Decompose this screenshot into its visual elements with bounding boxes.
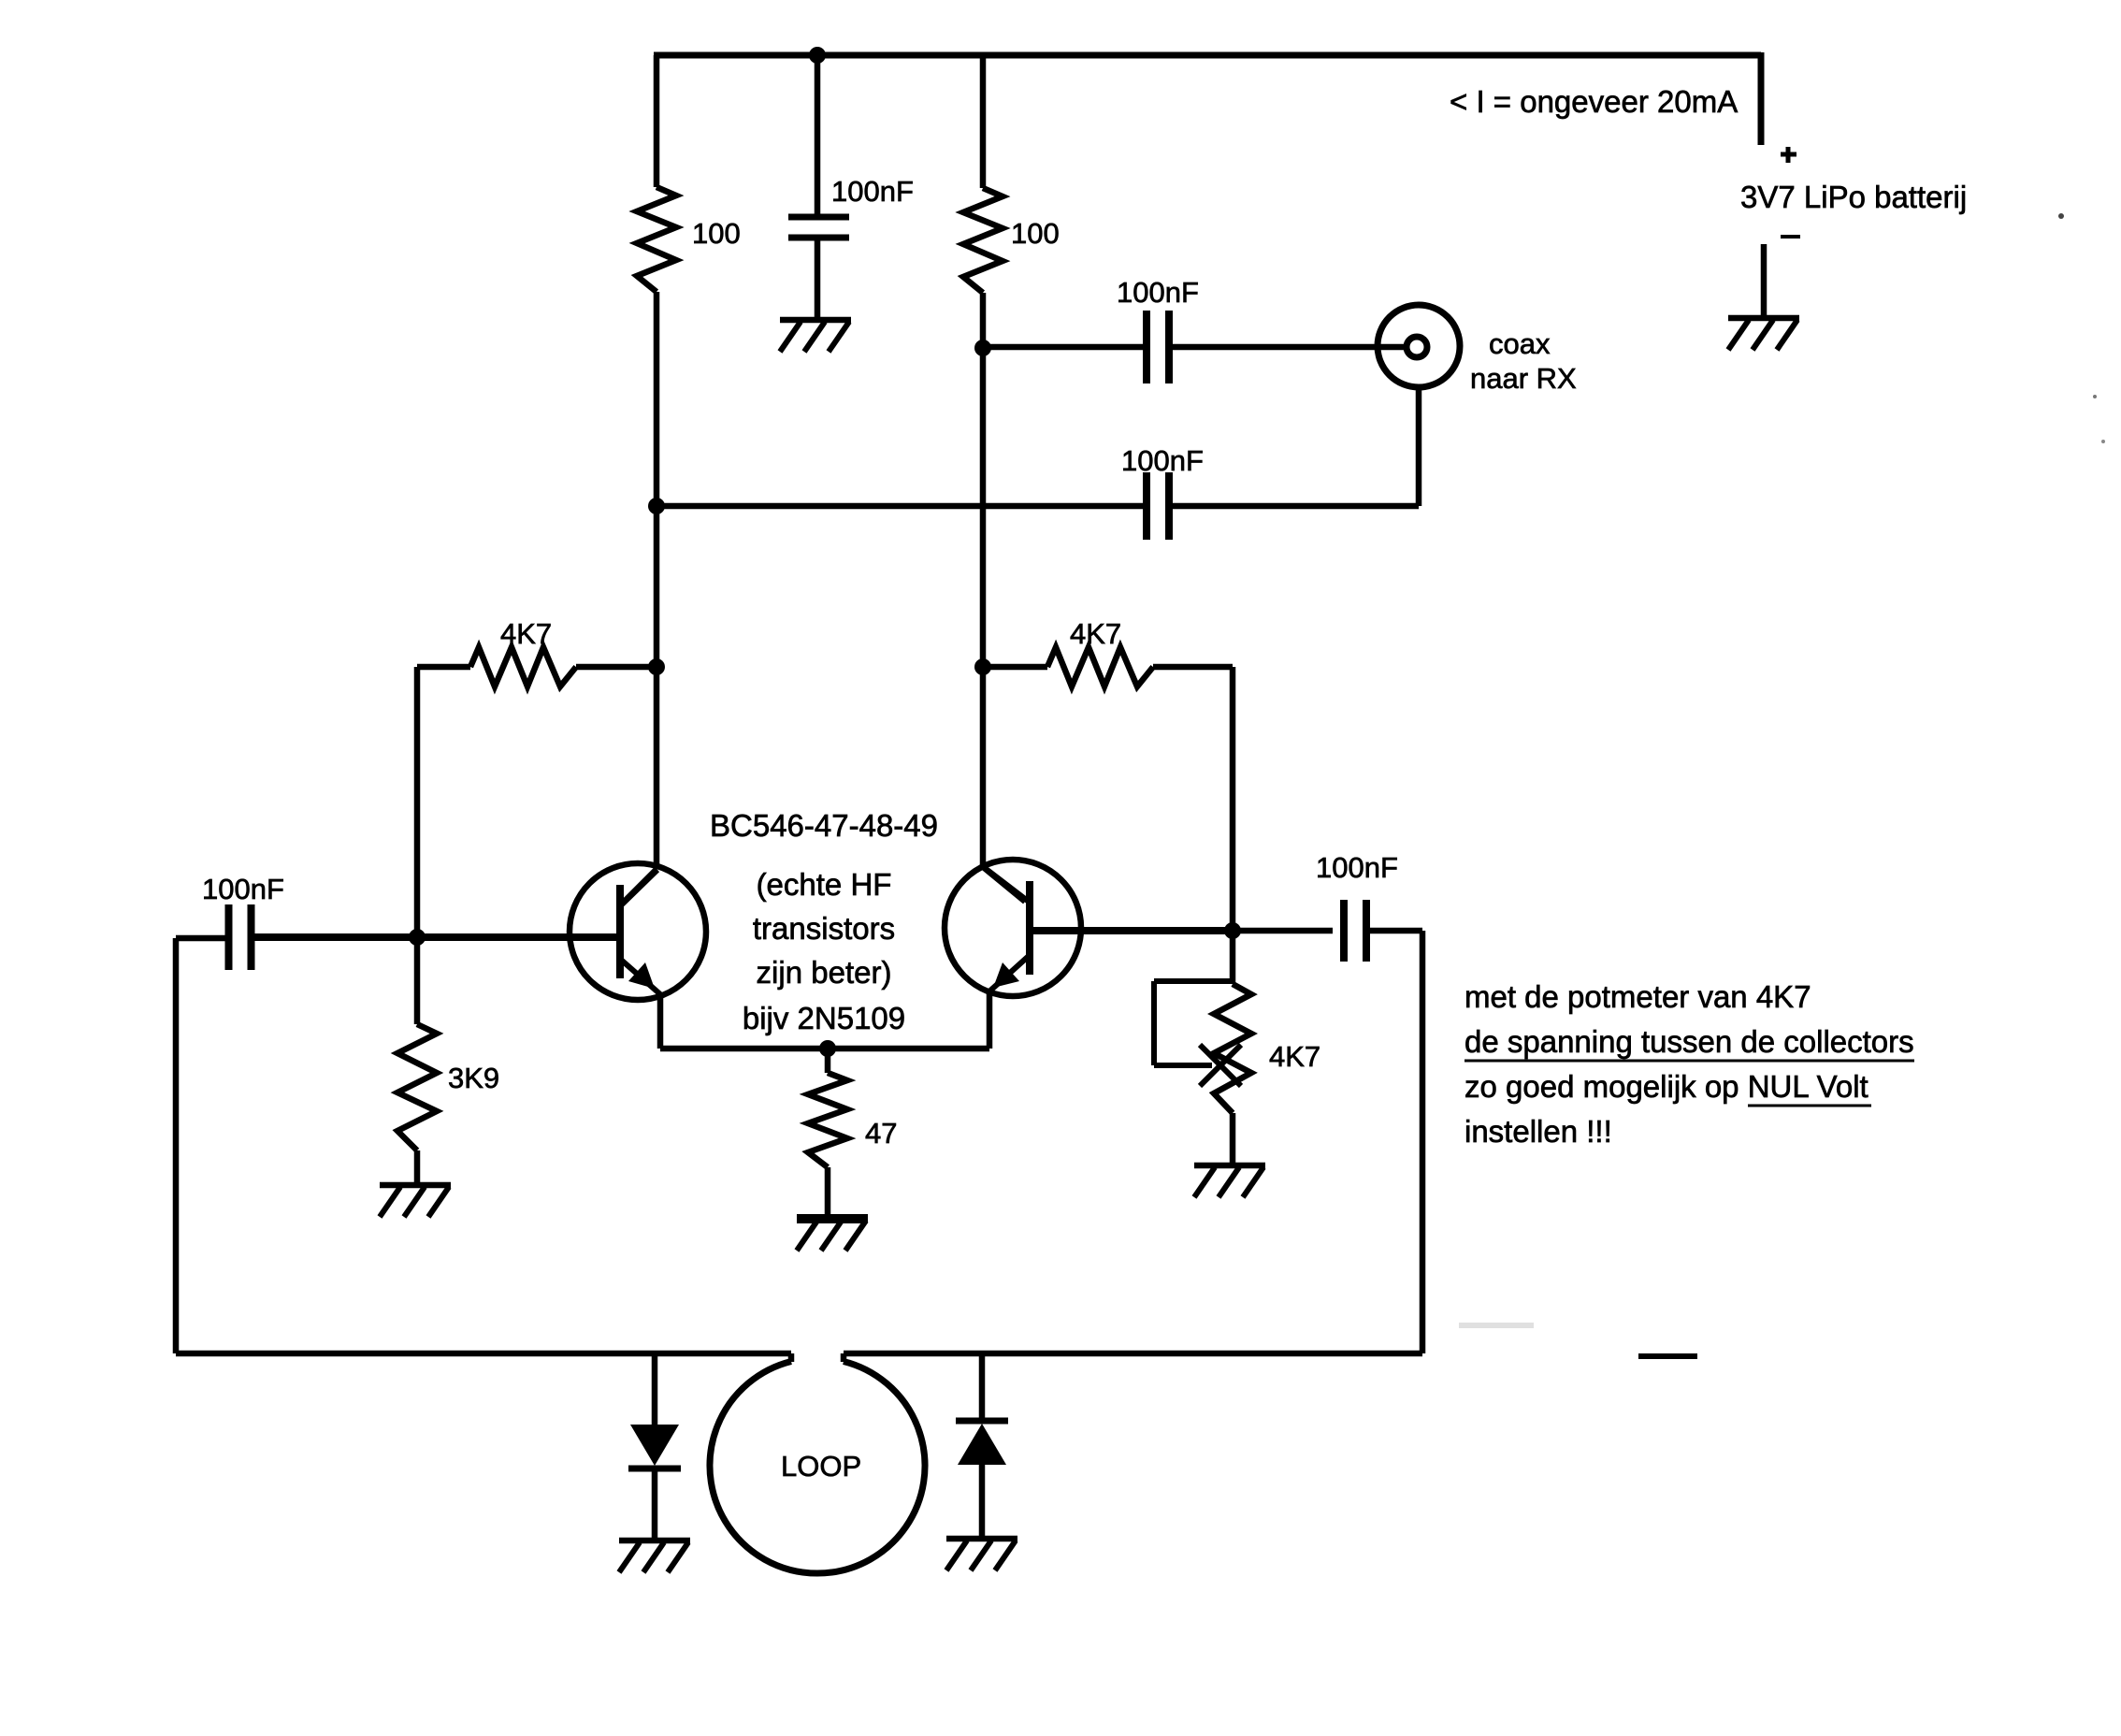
svg-text:< I = ongeveer 20mA: < I = ongeveer 20mA: [1450, 84, 1738, 119]
svg-text:100nF: 100nF: [1121, 444, 1204, 477]
svg-text:4K7: 4K7: [1269, 1040, 1320, 1073]
svg-text:3V7 LiPo batterij: 3V7 LiPo batterij: [1740, 180, 1967, 214]
svg-text:(echte HF: (echte HF: [757, 867, 892, 902]
svg-text:coax: coax: [1489, 327, 1551, 360]
svg-text:bijv 2N5109: bijv 2N5109: [743, 1001, 905, 1035]
svg-text:zo goed mogelijk op NUL Volt: zo goed mogelijk op NUL Volt: [1464, 1069, 1868, 1104]
svg-text:100: 100: [1011, 217, 1060, 250]
svg-text:4K7: 4K7: [1070, 617, 1121, 650]
svg-text:de spanning tussen de collecto: de spanning tussen de collectors: [1464, 1024, 1914, 1059]
svg-text:100nF: 100nF: [202, 873, 284, 905]
svg-text:100nF: 100nF: [1117, 276, 1199, 309]
svg-text:instellen !!!: instellen !!!: [1464, 1114, 1612, 1149]
svg-text:3K9: 3K9: [448, 1062, 499, 1094]
svg-text:zijn beter): zijn beter): [757, 955, 892, 990]
svg-text:100nF: 100nF: [1316, 851, 1398, 884]
svg-text:LOOP: LOOP: [781, 1450, 861, 1483]
svg-text:naar RX: naar RX: [1470, 362, 1577, 395]
svg-text:100nF: 100nF: [831, 175, 914, 208]
svg-text:met de potmeter van 4K7: met de potmeter van 4K7: [1464, 979, 1811, 1014]
svg-text:transistors: transistors: [753, 911, 895, 946]
svg-text:BC546-47-48-49: BC546-47-48-49: [710, 808, 938, 843]
svg-text:4K7: 4K7: [500, 617, 552, 650]
svg-text:47: 47: [865, 1117, 897, 1150]
svg-text:100: 100: [692, 217, 741, 250]
